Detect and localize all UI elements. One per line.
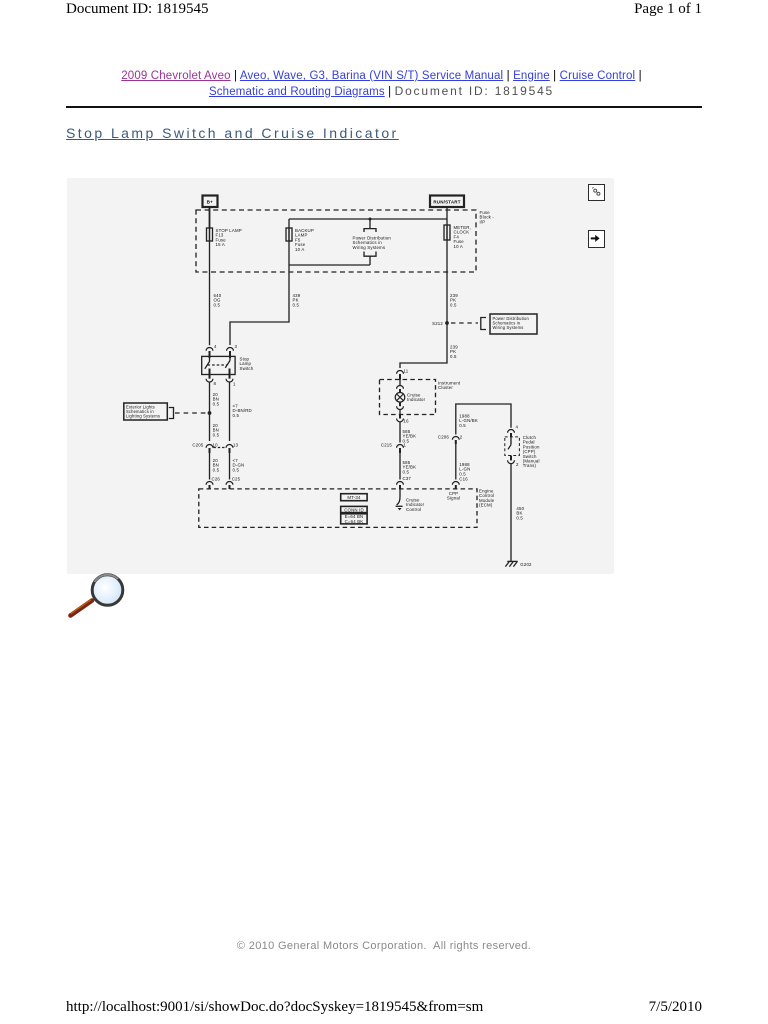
wire 1988 L-GN: [455, 444, 457, 480]
svg-text:1: 1: [404, 442, 407, 447]
connector C205 right arch: [226, 445, 233, 448]
svg-text:METER,CLOCKF4Fuse10 A: METER,CLOCKF4Fuse10 A: [454, 225, 472, 249]
connector C37 arch: [397, 482, 404, 485]
CPP switch dashed box: [505, 437, 520, 456]
svg-text:11: 11: [404, 369, 409, 374]
svg-text:Exterior LightsSchematics inLi: Exterior LightsSchematics inLighting Sys…: [126, 405, 160, 419]
arrow icon right: [588, 230, 605, 248]
connector pin 1 cup: [226, 379, 233, 382]
connector C205 left arch: [206, 445, 213, 448]
wire B+ to fuse F13: [209, 207, 211, 228]
stub C215: [399, 448, 401, 453]
svg-text:C37: C37: [403, 476, 412, 481]
stub C205 left: [209, 448, 211, 453]
svg-text:S212: S212: [432, 321, 443, 326]
svg-text:C215: C215: [381, 442, 393, 447]
dashed tie C205: [214, 447, 226, 449]
stub CPP pin 4: [510, 433, 512, 437]
stub pin 4: [209, 351, 211, 358]
stub pin 11: [399, 374, 401, 380]
box exterior lights reference: [124, 403, 168, 420]
svg-text:CPPSignal: CPPSignal: [447, 491, 460, 501]
svg-text:13: 13: [233, 442, 239, 447]
junction exterior lights tap: [208, 411, 212, 415]
svg-text:20BN0.5: 20BN0.5: [213, 423, 220, 437]
CPP switch blade: [508, 437, 511, 460]
connector C206 arch: [452, 437, 459, 440]
svg-text:<7D-GN0.5: <7D-GN0.5: [233, 458, 245, 472]
stub lamp bottom: [399, 402, 401, 406]
lamp cruise indicator circle: [395, 393, 405, 403]
switch bottom contacts: [210, 369, 230, 379]
junction power distribution tap: [369, 218, 372, 221]
stop lamp switch box: [202, 356, 235, 374]
connector pin 11 arch: [397, 371, 404, 374]
ground G202: [505, 560, 517, 567]
header left: Document ID: [66, 1, 208, 18]
bracket exterior lights: [169, 408, 174, 419]
node S212: [445, 321, 449, 325]
svg-text:2: 2: [516, 462, 519, 467]
wire 640 OG: [209, 241, 211, 345]
magnifier icon: [62, 562, 132, 624]
stub C37: [399, 485, 401, 489]
svg-text:InstrumentCluster: InstrumentCluster: [438, 381, 461, 391]
connector pin 4 arch stop lamp switch: [206, 348, 213, 351]
wire RUN/START down: [446, 207, 448, 225]
svg-text:4: 4: [516, 425, 519, 430]
connector CPP pin 2 cup: [508, 460, 515, 463]
wire bus RUN/START to backup fuse: [289, 218, 447, 220]
svg-text:<7D-BN/RD0.5: <7D-BN/RD0.5: [233, 404, 252, 418]
svg-text:MT-34: MT-34: [347, 495, 361, 500]
stub C205 right: [229, 448, 231, 453]
svg-text:B+: B+: [207, 200, 213, 205]
box power distribution reference: [490, 314, 537, 334]
footer date: [649, 999, 702, 1016]
wire power distribution out: [369, 256, 371, 265]
svg-text:Power DistributionSchematics i: Power DistributionSchematics inWiring Sy…: [353, 236, 392, 250]
horizontal rule: [66, 106, 702, 108]
stub C16: [455, 485, 457, 489]
svg-text:ClutchPedalPosition(CPP)Switch: ClutchPedalPosition(CPP)Switch(ManualTra…: [523, 435, 540, 468]
svg-text:CruiseIndicator: CruiseIndicator: [407, 393, 426, 403]
bracket power distribution bottom: [364, 252, 376, 257]
svg-text:10: 10: [213, 442, 219, 447]
svg-text:3: 3: [235, 344, 238, 349]
fuse F4 METER CLOCK: [444, 225, 450, 240]
wire 239 PK from fuse F4: [400, 240, 447, 368]
bracket power distribution right: [481, 318, 486, 330]
wire tap down: [369, 219, 371, 229]
cruise indicator control driver: [396, 489, 403, 510]
wire into lamp: [399, 380, 401, 386]
svg-text:239PK0.5: 239PK0.5: [450, 345, 458, 359]
svg-text:20BN0.5: 20BN0.5: [213, 458, 220, 472]
lamp socket cup: [397, 406, 404, 409]
svg-text:C25: C25: [232, 477, 241, 482]
wire 439 PK vertical: [230, 241, 289, 345]
svg-text:1988L-GN/BK0.5: 1988L-GN/BK0.5: [459, 414, 478, 428]
fuse F5 BACKUP LAMP: [286, 219, 292, 241]
connector C25 arch: [226, 482, 233, 485]
svg-text:EngineControlModule(ECM): EngineControlModule(ECM): [479, 489, 495, 508]
wire 20 BN upper: [209, 382, 211, 441]
svg-text:16: 16: [404, 419, 410, 424]
switch gang dashed link: [208, 364, 228, 366]
svg-text:FuseBlock -I/P: FuseBlock -I/P: [480, 210, 495, 224]
wire backup fuse to switch junction: [289, 264, 370, 266]
wire 20 BN lower: [209, 453, 211, 480]
node B+: [203, 196, 218, 208]
connector CPP pin 4 arch: [508, 430, 515, 433]
svg-text:CONN ID: CONN ID: [344, 507, 364, 512]
schematic image area: [67, 178, 614, 574]
stub C25: [229, 485, 231, 489]
svg-text:RUN/START: RUN/START: [433, 199, 460, 204]
svg-text:G202: G202: [520, 562, 532, 567]
stub C26: [209, 485, 211, 489]
copyright: [0, 940, 768, 952]
svg-text:CruiseIndicatorControl: CruiseIndicatorControl: [406, 498, 425, 512]
wire D-GN lower: [229, 453, 231, 480]
connector pin 8 cup: [206, 379, 213, 382]
svg-text:2: 2: [460, 434, 463, 439]
stub lamp top: [399, 389, 401, 393]
svg-text:BACKUPLAMPF5Fuse10 A: BACKUPLAMPF5Fuse10 A: [295, 228, 314, 252]
fuse block I/P dashed box: [196, 210, 476, 272]
svg-text:8: 8: [214, 381, 217, 386]
wire dashed to exterior lights: [175, 412, 207, 414]
switch blade left: [205, 358, 210, 369]
svg-text:STOP LAMPF13Fuse15 A: STOP LAMPF13Fuse15 A: [216, 228, 242, 247]
svg-text:C26: C26: [212, 477, 221, 482]
svg-text:1: 1: [233, 382, 236, 387]
svg-text:1988L-GN0.5: 1988L-GN0.5: [459, 462, 470, 476]
page title: [66, 125, 399, 141]
wire lamp to cluster edge: [399, 410, 401, 418]
svg-text:239PK0.5: 239PK0.5: [450, 293, 458, 307]
svg-text:C205: C205: [192, 442, 204, 447]
stub pin 16: [399, 415, 401, 419]
wire 585 YE/BK lower: [399, 453, 401, 480]
node RUN/START: [430, 196, 464, 208]
svg-text:C=64 BK: C=64 BK: [345, 519, 364, 524]
svg-text:4: 4: [214, 344, 217, 349]
wire dashed S212 to power distribution: [451, 322, 478, 324]
wire D-BN/RD: [229, 382, 231, 441]
zoom icon top right: [588, 184, 605, 201]
svg-text:20BN0.5: 20BN0.5: [213, 392, 220, 406]
breadcrumb block: [0, 69, 763, 100]
connector pin 16 cup: [397, 419, 404, 422]
connector C16 arch: [452, 482, 459, 485]
svg-text:640OG0.5: 640OG0.5: [214, 293, 222, 307]
ECM dashed box: [199, 489, 477, 528]
box MT-34: [341, 494, 367, 501]
connector C26 arch: [206, 482, 213, 485]
stub C206: [455, 440, 457, 444]
svg-text:C16: C16: [459, 477, 468, 482]
wire 450 BK: [510, 464, 512, 560]
svg-text:Power DistributionSchematics i: Power DistributionSchematics inWiring Sy…: [493, 316, 530, 330]
fuse F13 STOP LAMP: [207, 228, 213, 241]
svg-text:450BK0.5: 450BK0.5: [516, 506, 524, 520]
connector pin 3 arch stop lamp switch: [227, 348, 234, 351]
switch blade right: [225, 358, 230, 368]
bracket power distribution top: [364, 229, 376, 232]
svg-text:StopLampSwitch: StopLampSwitch: [240, 357, 254, 371]
wire 585 YE/BK upper: [399, 422, 401, 443]
header right: Page 1 of 1: [634, 1, 702, 18]
instrument cluster dashed box: [380, 380, 436, 415]
svg-text:585YE/BK0.5: 585YE/BK0.5: [403, 460, 417, 474]
footer url: [66, 999, 483, 1016]
stub pin 3: [229, 351, 231, 358]
svg-text:439PK0.5: 439PK0.5: [293, 293, 301, 307]
lamp socket arch: [397, 386, 404, 389]
connector C215 arch: [397, 445, 404, 448]
wire 1988 L-GN/BK: [456, 404, 511, 435]
box CONN ID header: [341, 506, 367, 512]
box CONN ID rows: [341, 514, 367, 524]
svg-text:C206: C206: [438, 434, 450, 439]
svg-text:585YE/BK0.5: 585YE/BK0.5: [403, 429, 417, 443]
